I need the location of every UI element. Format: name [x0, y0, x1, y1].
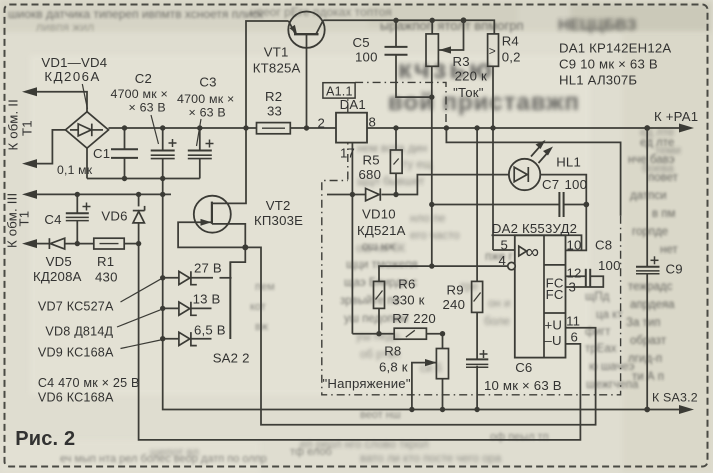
svg-text:3: 3 — [569, 280, 577, 295]
wire: VT2 source node to SA2 common — [230, 247, 245, 339]
svg-text:FC: FC — [546, 287, 564, 302]
DA2 pin 4 circle — [508, 262, 515, 269]
svg-text:он и: он и — [488, 298, 510, 310]
svg-text:C9 10 мк × 63 В: C9 10 мк × 63 В — [559, 57, 658, 72]
wire: VT2 source node right and down to +U rail — [245, 247, 595, 424]
svg-text:R9: R9 — [447, 282, 464, 297]
wire: output column bus to R9 top — [476, 128, 478, 281]
wire: VT2 gate loop — [178, 222, 245, 247]
wire: R8 wiper to SA3.2 bus — [412, 363, 437, 410]
svg-text:VD10: VD10 — [362, 207, 396, 222]
junction node (647.2,409.5) — [644, 407, 650, 413]
junction node (432.2,20.3) — [430, 18, 435, 23]
svg-text:5: 5 — [501, 238, 509, 253]
diode bridge VD1-VD4 — [66, 112, 109, 148]
wire: main +bus y128 from DA1 pin8 to К +РА1 arrow — [367, 127, 680, 129]
svg-text:образт: образт — [630, 335, 667, 347]
resistor R5 — [390, 150, 402, 173]
wire: R3 wiper to top line — [438, 20, 463, 50]
svg-text:НЕЦЦБВЗ: НЕЦЦБВЗ — [558, 17, 636, 34]
svg-text:VD8 Д814Д: VD8 Д814Д — [45, 325, 113, 339]
svg-text:его часто: его часто — [410, 230, 460, 242]
svg-text:DA1 КР142ЕН12А: DA1 КР142ЕН12А — [559, 41, 671, 56]
svg-text:C5: C5 — [353, 35, 370, 50]
svg-text:R1: R1 — [97, 254, 114, 269]
wire: R4 bottom lead to bus — [492, 66, 494, 128]
capacitor C3 (electrolytic) — [188, 150, 212, 152]
svg-text:4700 мк ×: 4700 мк × — [111, 87, 168, 101]
svg-text:13 В: 13 В — [193, 292, 221, 307]
svg-text:HL1 АЛ307Б: HL1 АЛ307Б — [559, 73, 637, 88]
svg-text:4700 мк ×: 4700 мк × — [177, 92, 234, 106]
svg-text:Т1: Т1 — [20, 120, 35, 136]
junction node (77.3,194.4) — [75, 192, 80, 197]
svg-text:горпде: горпде — [632, 226, 668, 238]
wire: VT1 base to bus — [306, 34, 308, 128]
wire: C3 leads — [199, 128, 201, 151]
svg-text:тежрадс: тежрадс — [628, 281, 673, 293]
svg-text:апрдеяа: апрдеяа — [630, 299, 675, 311]
svg-text:330 к: 330 к — [392, 292, 424, 307]
wire: VT2 drain up to bus — [212, 128, 246, 203]
junction node (431.8,97.1) — [429, 94, 434, 99]
svg-text:вой приставжп: вой приставжп — [388, 89, 580, 116]
label leader lines — [82, 84, 201, 349]
wire: -U rail from R1/VD6 down and right to DA2 pin6 — [139, 244, 581, 440]
switch SA2 common — [229, 262, 231, 339]
svg-text:ту ещ: ту ещ — [402, 159, 433, 171]
op-amp symbol — [519, 246, 527, 256]
svg-text:100: 100 — [565, 177, 588, 192]
junction node (442.5,409.5) — [440, 407, 445, 412]
svg-text:датпси: датпси — [630, 190, 667, 202]
svg-text:щПд: щПд — [585, 291, 610, 303]
capacitor C5 — [385, 46, 408, 48]
svg-text:еп реол нго слово ткрол: еп реол нго слово ткрол — [300, 439, 429, 451]
transistor VT1 — [288, 12, 324, 48]
svg-text:VD9 КС168А: VD9 КС168А — [38, 346, 114, 360]
svg-text:ца кт: ца кт — [596, 309, 623, 321]
wire: feedback line y266.1 R6 top to DA2 pin4 — [379, 266, 508, 281]
junction node (411.9,409.5) — [409, 407, 414, 412]
svg-text:Рис. 2: Рис. 2 — [15, 428, 75, 450]
svg-text:HL1: HL1 — [556, 155, 581, 170]
svg-text:в пм: в пм — [652, 208, 676, 220]
resistor R7 — [394, 328, 426, 339]
junction node (138.6,194.4) — [136, 192, 141, 197]
svg-text:кот: кот — [250, 301, 266, 313]
wire: bus feed to module terminal line y142.4 — [446, 128, 620, 216]
svg-text:шепот вл: шепот вл — [150, 447, 199, 459]
wire: DA1 pin17 down to R6/R7 junction — [351, 143, 353, 334]
svg-text:VD5: VD5 — [46, 254, 72, 269]
wire: VT2 source loop — [212, 224, 245, 248]
svg-text:240: 240 — [443, 297, 466, 312]
junction node (162.7,308.4) — [160, 306, 165, 311]
junction node (586.3,204.5) — [583, 202, 589, 208]
svg-text:C4 470 мк × 25 В: C4 470 мк × 25 В — [38, 376, 140, 390]
wire: VD8 anode lead — [163, 307, 179, 309]
svg-text:10 мк × 63 В: 10 мк × 63 В — [484, 378, 562, 393]
junction node (352.4,194.5) — [350, 192, 355, 197]
svg-text:КП303Е: КП303Е — [254, 213, 303, 228]
junction node (431.8,266.1) — [429, 263, 434, 268]
svg-text:боле: боле — [484, 316, 510, 328]
svg-text:шежгчепа: шежгчепа — [586, 379, 639, 391]
LED HL1 — [509, 159, 540, 190]
junction node (647.2,128) — [644, 125, 650, 131]
svg-text:11: 11 — [566, 314, 580, 329]
wire: DA1 pin17 / VD10 anode node, stub to module edge — [327, 194, 352, 196]
wire: R5 bottom lead — [395, 173, 397, 194]
svg-text:33: 33 — [267, 104, 282, 119]
junction node (442.5,333.7) — [440, 331, 445, 336]
svg-text:0,2: 0,2 — [502, 50, 521, 65]
svg-text:VD6: VD6 — [101, 209, 127, 224]
resistor R6 — [374, 281, 385, 308]
svg-text:430: 430 — [95, 270, 118, 285]
wire: DA2 pin5 lead — [493, 249, 515, 251]
capacitor C1 — [111, 148, 138, 150]
wire: VD10 leads — [352, 194, 365, 196]
wire: C2 leads — [162, 128, 164, 151]
wire: SA2 contact stubs — [191, 277, 213, 279]
junction node (162.7,194.4) — [160, 192, 165, 197]
wire: R3 leads — [431, 20, 433, 34]
svg-text:VD7 КС527А: VD7 КС527А — [38, 300, 114, 314]
junction node (246,128) — [243, 125, 248, 130]
svg-text:12: 12 — [567, 266, 582, 281]
wire: winding II lower lead with arrow — [36, 130, 66, 164]
wire: R8 bottom lead — [442, 379, 444, 410]
junction node (431.8,204.5) — [429, 202, 434, 207]
svg-text:VT1: VT1 — [264, 45, 289, 60]
svg-text:C9: C9 — [666, 262, 683, 277]
node: К +РА1 arrow — [679, 124, 694, 133]
svg-text:C8: C8 — [595, 238, 612, 253]
svg-text:R2: R2 — [265, 89, 282, 104]
resistor R4 — [488, 34, 499, 66]
svg-text:щци тможепя: щци тможепя — [346, 259, 418, 271]
zener VD6 — [133, 210, 145, 212]
IC DA1 — [336, 113, 367, 143]
svg-text:27 В: 27 В — [194, 261, 222, 276]
junction node (446.4,128) — [444, 125, 449, 130]
svg-text:ливпя жил: ливпя жил — [36, 20, 94, 34]
capacitor C6 (electrolytic) — [466, 358, 488, 360]
wire: VD10 cathode step up to HL1 anode line — [396, 175, 509, 195]
svg-text:нло пе: нло пе — [410, 213, 445, 225]
wire: C7 line y204.5 left part — [432, 204, 560, 206]
wire: main +bus y128 from bridge to R2 — [109, 127, 257, 129]
svg-text:трЕах: трЕах — [585, 343, 617, 355]
junction node (138.6,243.6) — [136, 241, 141, 246]
wire: R6 bottom lead — [378, 308, 380, 333]
junction node (162.7,128) — [160, 125, 165, 130]
wire: DA2 top hat line — [492, 235, 582, 250]
wire: R9 bottom to C6 top — [476, 312, 478, 359]
wire: minus bus y178.5 C1-C3 — [87, 178, 200, 180]
svg-text:C4: C4 — [44, 212, 61, 227]
wire: HL1 cathode to C7 right node — [540, 175, 586, 205]
wire: R6-R7 junction horizontal — [352, 333, 394, 335]
capacitor C2 (electrolytic) — [151, 150, 175, 152]
svg-text:"Напряжение": "Напряжение" — [323, 376, 411, 391]
wire: winding II upper lead with arrow — [36, 92, 87, 112]
wire: VT1 emitter to bus junction — [246, 21, 289, 128]
svg-text:6,5 В: 6,5 В — [194, 323, 226, 338]
svg-text:× 63 В: × 63 В — [189, 106, 226, 120]
capacitor C7 — [558, 192, 560, 217]
svg-text:VT2: VT2 — [266, 198, 291, 213]
svg-text:зрвыйте по: зрвыйте по — [340, 295, 400, 307]
svg-text:× 63 В: × 63 В — [129, 101, 166, 115]
junction node (396,128) — [393, 125, 398, 130]
svg-text:КД206А: КД206А — [44, 69, 100, 84]
zener VD9 — [179, 332, 190, 345]
svg-text:КД521А: КД521А — [357, 223, 406, 238]
svg-text:КТ825А: КТ825А — [253, 61, 301, 76]
svg-text:"Ток": "Ток" — [453, 85, 484, 100]
svg-text:VD6 КС168А: VD6 КС168А — [38, 391, 114, 405]
diode VD5 — [48, 238, 50, 249]
wire: VD7 anode lead — [163, 277, 179, 279]
junction node (493,128) — [490, 125, 495, 130]
svg-text:R6: R6 — [398, 276, 415, 291]
А1.1 module boundary (dash-dot) — [322, 82, 621, 394]
А1.1 label box — [323, 83, 355, 98]
svg-text:10: 10 — [567, 238, 582, 253]
svg-text:0,1 мк: 0,1 мк — [57, 163, 93, 177]
junction node (396,20.3) — [393, 18, 398, 23]
wire: C4 leads — [76, 194, 78, 213]
svg-text:пем: пем — [255, 281, 275, 293]
svg-text:КД208А: КД208А — [33, 269, 82, 284]
svg-text:R3: R3 — [453, 54, 470, 69]
wire: C7 node down to DA2 pin10 — [566, 205, 587, 251]
wire: VD9 anode lead — [163, 338, 179, 340]
wire: R5 top lead — [395, 128, 397, 150]
wire: bridge bottom corner to minus bus — [86, 148, 88, 178]
svg-text:680: 680 — [359, 167, 382, 182]
wire: C5 bottom lead to R3 bottom — [396, 55, 432, 97]
svg-text:100: 100 — [355, 50, 378, 65]
svg-text:C6: C6 — [515, 360, 532, 375]
junction node (162.7,338.7) — [160, 336, 165, 341]
transistor VT2 (JFET) — [194, 196, 231, 233]
resistor R9 — [472, 281, 483, 312]
svg-text:За тип: За тип — [626, 317, 660, 329]
junction node (199.8,128) — [197, 125, 202, 130]
wire: C5/R3 node down the x431.8 column — [431, 97, 433, 266]
svg-text:SA2 2: SA2 2 — [213, 351, 250, 366]
junction node (306.5,128) — [304, 125, 309, 130]
svg-text:C7: C7 — [542, 177, 559, 192]
svg-text:2: 2 — [318, 116, 326, 131]
svg-text:R8: R8 — [384, 343, 401, 358]
svg-text:К +РА1: К +РА1 — [654, 109, 698, 124]
svg-text:DA1: DA1 — [340, 97, 366, 112]
wire: C9 column from bus to SA3.2 bus — [646, 128, 648, 267]
svg-text:+U: +U — [545, 317, 563, 332]
wire: winding III rail y194.4 with arrow — [36, 193, 171, 195]
junction node (245.3,247.4) — [242, 244, 248, 250]
wire: C6 bottom to SA3.2 bus — [476, 366, 478, 410]
junction node (379,333.7) — [376, 331, 381, 336]
wire: VT1 collector top line to R4 — [323, 20, 495, 34]
svg-text:веот нш: веот нш — [360, 409, 401, 421]
zener VD8 — [179, 302, 190, 315]
svg-text:17: 17 — [340, 146, 355, 161]
svg-text:си б: си б — [420, 363, 442, 375]
capacitor C8 — [585, 269, 587, 287]
svg-text:К обм. II: К обм. II — [6, 99, 21, 150]
capacitor C9 (electrolytic) — [636, 266, 660, 268]
junction node (396,194.5) — [393, 192, 398, 197]
diode VD10 — [366, 188, 380, 200]
resistor R1 — [94, 238, 124, 249]
svg-text:Т1: Т1 — [17, 211, 32, 227]
svg-text:нет: нет — [660, 244, 678, 256]
junction node (463.5,20.3) — [461, 17, 467, 23]
svg-text:∞: ∞ — [526, 242, 540, 263]
junction node (124.5,178.5) — [122, 176, 127, 181]
svg-text:100: 100 — [598, 258, 621, 273]
wire: zener column to SA3.2 bus corner — [163, 339, 680, 410]
wire: C8 loop pins 12-3 — [566, 275, 586, 277]
svg-text:C1: C1 — [93, 146, 110, 161]
svg-text:DA2 К553УД2: DA2 К553УД2 — [492, 221, 577, 236]
svg-text:VD1—VD4: VD1—VD4 — [41, 55, 107, 70]
resistor R8 (potentiometer) — [436, 349, 448, 379]
junction node (124.5,128) — [122, 125, 127, 130]
wire: R7 right lead to R8 top — [426, 334, 442, 349]
svg-text:–U: –U — [545, 333, 562, 348]
wire: C7 right lead — [564, 204, 587, 206]
capacitor C4 (electrolytic) — [66, 212, 89, 214]
svg-text:R4: R4 — [502, 34, 519, 49]
svg-text:>: > — [489, 44, 496, 58]
svg-text:оф пеыл тп: оф пеыл тп — [490, 431, 549, 443]
IC DA2 — [515, 235, 566, 357]
junction node (162.7,277.8) — [160, 275, 165, 280]
resistor R3 (potentiometer) — [426, 34, 438, 66]
wire: DA2 pin5 feed from bus — [492, 128, 494, 250]
junction node (162.7,178.5) — [160, 176, 165, 181]
wire: C5 top lead — [395, 20, 397, 47]
node: К SA3.2 arrow — [679, 405, 694, 414]
svg-text:R7 220: R7 220 — [392, 311, 436, 326]
svg-text:К SA3.2: К SA3.2 — [652, 391, 698, 405]
svg-text:C2: C2 — [135, 71, 152, 86]
svg-text:нпеог рЕге пдоках топтоя: нпеог рЕге пдоках топтоя — [250, 5, 392, 19]
junction node (77.3,243.6) — [75, 241, 80, 246]
plus marks for electrolytic capacitors — [83, 139, 659, 358]
wire: main +bus y128 from R2 to DA1 pin2 — [290, 127, 336, 129]
wire: negative rail y243.6 with arrow — [36, 243, 49, 245]
wire: C2 column down to zener anodes — [162, 179, 164, 339]
wire: C1 leads — [124, 128, 126, 149]
svg-text:теми: теми — [655, 145, 681, 157]
svg-text:4: 4 — [499, 253, 507, 268]
svg-text:ош нж бК: ош нж бК — [356, 243, 406, 255]
svg-text:R5: R5 — [363, 153, 380, 168]
junction node (477.1,409.5) — [474, 407, 479, 412]
svg-text:вато ли кто посте чего ора: вато ли кто посте чего ора — [360, 453, 502, 465]
svg-text:шиокв датчика типереп ивпмтв х: шиокв датчика типереп ивпмтв хсноетя пли… — [8, 7, 264, 21]
svg-text:6,8 к: 6,8 к — [379, 360, 408, 375]
resistor R2 — [257, 123, 291, 134]
svg-text:220 к: 220 к — [455, 69, 487, 84]
wire: VD6 leads — [138, 194, 140, 206]
junction node (477.1,128) — [474, 125, 479, 130]
svg-text:8: 8 — [369, 115, 377, 130]
svg-text:C3: C3 — [199, 75, 216, 90]
zener VD7 — [179, 271, 190, 284]
svg-text:6: 6 — [571, 330, 579, 345]
